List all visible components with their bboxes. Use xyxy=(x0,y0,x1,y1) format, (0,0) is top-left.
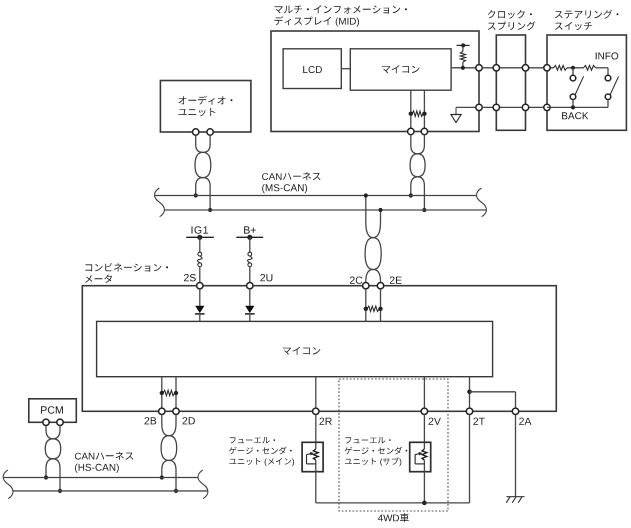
meter pin 2A xyxy=(512,408,518,414)
meter pin 2S xyxy=(197,283,203,289)
MS-CAN bus CAN-H wire xyxy=(155,195,477,197)
node: junction of R1 and switch signal wire xyxy=(461,66,465,70)
meter pin 2R xyxy=(313,408,319,414)
node: BACK line junction xyxy=(571,105,575,109)
clock spring connector pins xyxy=(493,65,499,71)
twisted pair: PCM to HS-CAN bus xyxy=(46,425,61,477)
harness break (right) xyxy=(477,188,487,217)
node: 2T/2A branch xyxy=(467,390,472,395)
meter CAN wires 2C/2E to microcomputer xyxy=(365,289,367,322)
node: PCM CAN-L on bus xyxy=(58,489,62,493)
wire microcomputer to 2T and 2A xyxy=(469,377,471,409)
node: meter CAN-H on bus xyxy=(364,193,368,197)
wire 2R to main sender xyxy=(315,414,317,442)
node: audio CAN-H on bus xyxy=(194,193,198,197)
label CAN harness (HS-CAN) xyxy=(75,452,133,460)
diode D2 (2U feed) xyxy=(249,289,251,306)
wire sub sender to common return xyxy=(423,472,425,503)
IG1 supply tap xyxy=(192,226,208,233)
chassis ground G2 xyxy=(506,496,524,498)
MID connector pins (right edge) xyxy=(476,65,482,71)
node: meter CAN-L on bus xyxy=(378,208,382,212)
node: audio CAN-L on bus xyxy=(208,208,212,212)
label steering switch xyxy=(555,10,619,19)
wire 2T down to sender return xyxy=(469,414,471,503)
harness break (left) xyxy=(155,188,165,217)
label BACK xyxy=(562,112,588,119)
node: meter CAN-L on HS bus xyxy=(174,489,178,493)
wire MID to steering switch (ground line through clock spring) xyxy=(482,106,547,108)
label CAN harness (MS-CAN) xyxy=(262,172,320,180)
twisted pair: meter 2B/2D to HS-CAN bus xyxy=(162,414,177,477)
wire 2A to chassis ground xyxy=(515,414,517,496)
label multi-information display (MID) xyxy=(275,5,407,13)
twisted pair: MID to MS-CAN bus xyxy=(411,135,425,196)
ground G1 (signal ground, open triangle) xyxy=(456,106,479,108)
node: MID CAN-H on bus xyxy=(409,193,413,197)
PCM box xyxy=(29,399,77,423)
wire BACK common to connector xyxy=(547,106,608,108)
steering switch box xyxy=(547,35,626,130)
wire microcomputer to 2R xyxy=(315,377,317,409)
switch SW2 BACK (open contacts) xyxy=(572,68,574,76)
LCD U1 box xyxy=(283,49,341,89)
clock spring box xyxy=(496,35,525,130)
twisted pair: MS-CAN bus to meter pins 2C/2E xyxy=(366,196,381,283)
wire LCD to microcomputer xyxy=(341,68,350,70)
termination resistor R4 (MID, between CAN-H/L) xyxy=(412,111,423,116)
label INFO xyxy=(596,52,619,59)
4WD variant dashed enclosure xyxy=(339,379,448,511)
harness break (left) xyxy=(3,470,13,499)
MID unit box xyxy=(271,31,479,132)
label combination meter xyxy=(85,263,168,272)
HS-CAN bus CAN-H wire xyxy=(3,477,198,479)
twisted pair: audio unit to MS-CAN bus xyxy=(196,135,211,195)
common sender return wire to 2T xyxy=(316,502,470,504)
meter HS-CAN wires to 2B/2D xyxy=(161,377,163,409)
diode D1 (2S feed) xyxy=(199,289,201,306)
termination resistor R5 (meter, between CAN-H/L) xyxy=(367,306,379,311)
node: sender return junction xyxy=(422,501,427,506)
fuse F1 (IG1) xyxy=(198,252,202,256)
wire MID to steering switch (signal line through clock spring) xyxy=(482,67,553,69)
meter pin 2C xyxy=(363,283,369,289)
pull-up resistor R1 with supply tap xyxy=(462,45,464,51)
steering switch connector pins (left edge) xyxy=(544,65,550,71)
audio unit box xyxy=(160,81,251,133)
termination resistor R6 (meter HS-CAN) xyxy=(163,390,175,395)
node: PCM CAN-H on bus xyxy=(44,475,48,479)
fuel gauge sender unit R7 (main) xyxy=(302,442,323,471)
wire main sender to common return xyxy=(315,472,317,503)
wire 2V to sub sender xyxy=(423,414,425,442)
wire R2 to node xyxy=(567,67,584,69)
meter pin 2B xyxy=(159,408,165,414)
wire microcomputer to 2V xyxy=(423,377,425,409)
fuse F2 (B+) xyxy=(248,252,252,256)
microcomputer U3 box (meter) xyxy=(97,321,493,376)
meter pin 2V xyxy=(421,408,427,414)
meter pin 2E xyxy=(377,283,383,289)
label fuel gauge sender unit (main) xyxy=(230,437,275,443)
meter pin 2T xyxy=(466,408,472,414)
resistor R2 (INFO switch ladder) xyxy=(554,65,568,70)
meter pin 2D xyxy=(173,408,179,414)
MID CAN pins (bottom edge) xyxy=(408,128,414,134)
B+ supply tap xyxy=(244,226,256,233)
audio unit CAN pins xyxy=(193,129,199,135)
harness break (right) xyxy=(198,470,208,499)
fuel gauge sender unit R8 (sub) xyxy=(410,442,431,471)
node: meter CAN-H on HS bus xyxy=(160,475,164,479)
label clock spring xyxy=(488,10,532,19)
HS-CAN bus CAN-L wire xyxy=(13,490,208,492)
MS-CAN bus CAN-L wire xyxy=(164,209,486,211)
label fuel gauge sender unit (sub) xyxy=(345,437,390,443)
combination meter box xyxy=(82,286,556,412)
meter pin 2U xyxy=(247,283,253,289)
PCM CAN pins xyxy=(43,419,49,425)
node: MID CAN-L on bus xyxy=(422,208,426,212)
microcomputer CAN wires (MID) xyxy=(410,90,412,131)
switch SW1 INFO (open contacts) xyxy=(605,75,611,81)
microcomputer U2 box (MID) xyxy=(350,49,451,90)
wire R3 to INFO switch xyxy=(596,67,609,69)
node: ladder junction xyxy=(571,66,575,70)
wire microcomputer to MID pin (switch signal) xyxy=(451,67,479,69)
resistor R3 (INFO branch) xyxy=(584,65,596,70)
